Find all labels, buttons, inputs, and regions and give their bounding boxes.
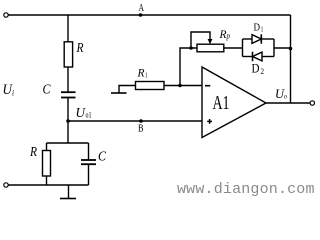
wire C to node Uo1 [67, 98, 69, 144]
svg-text:U: U [76, 106, 86, 121]
ground [68, 185, 70, 199]
potentiometer Rp [197, 44, 224, 52]
wire R to C [67, 67, 69, 92]
wiper arrow of Rp [191, 32, 210, 48]
label Ui [3, 82, 15, 98]
wire feedback riser [180, 48, 197, 86]
input terminal (bottom) [4, 183, 8, 187]
capacitor C (parallel) [81, 159, 96, 161]
svg-text:A1: A1 [213, 92, 230, 114]
pin + (non-inverting) [207, 120, 212, 122]
wire node Uo1 to op-amp + input [68, 120, 202, 122]
parallel RC top rail wire [47, 142, 89, 144]
svg-text:C: C [98, 150, 107, 165]
node wiper junction [189, 46, 193, 50]
output terminal Uo [310, 101, 314, 105]
svg-text:2: 2 [261, 67, 265, 76]
node A [139, 13, 143, 17]
svg-text:C: C [43, 83, 52, 98]
wire top rail [8, 14, 290, 16]
svg-text:p: p [226, 32, 230, 41]
svg-text:o1: o1 [86, 111, 92, 120]
wire diode network to output node [274, 47, 291, 49]
wire diode loop right [273, 39, 275, 57]
resistor R1 [136, 82, 165, 90]
ground (R1) [111, 92, 127, 94]
node B [139, 119, 143, 123]
svg-text:i: i [12, 89, 14, 98]
input terminal Ui (top) [4, 13, 8, 17]
resistor R (parallel) [43, 151, 51, 177]
svg-text:R: R [29, 145, 37, 160]
svg-text:1: 1 [145, 72, 148, 80]
wire cap branch bottom [88, 164, 90, 185]
capacitor C (series) [61, 91, 76, 93]
op-amp A1 [202, 67, 266, 138]
wire R bottom [46, 176, 48, 185]
wire output [266, 102, 310, 104]
svg-text:www.diangon.com: www.diangon.com [177, 181, 315, 198]
node inverting input junction [178, 84, 182, 88]
svg-text:A: A [139, 3, 145, 14]
pin - (inverting) [205, 85, 210, 87]
wire diode loop left [242, 39, 244, 57]
wire ground to R1 [119, 86, 136, 94]
diode D1 [243, 38, 253, 40]
svg-text:D: D [254, 22, 261, 34]
wire left branch top [67, 15, 69, 42]
resistor R (top) [64, 42, 72, 67]
svg-text:R: R [76, 41, 84, 56]
svg-text:1: 1 [261, 26, 264, 34]
wire Rp to diode network [224, 47, 243, 49]
svg-text:D: D [252, 61, 260, 76]
node Uo1 [66, 119, 70, 123]
wire right vertical [290, 15, 292, 103]
wire cap branch top [88, 143, 90, 160]
wire R1 to op-amp - input [164, 85, 202, 87]
svg-text:B: B [138, 124, 144, 135]
diode D2 [243, 56, 253, 58]
wire left vertical of parallel RC [46, 143, 48, 151]
svg-text:R: R [137, 66, 146, 80]
wire bottom rail [8, 184, 88, 186]
node feedback/output junction [289, 47, 293, 51]
svg-text:o: o [284, 93, 287, 101]
